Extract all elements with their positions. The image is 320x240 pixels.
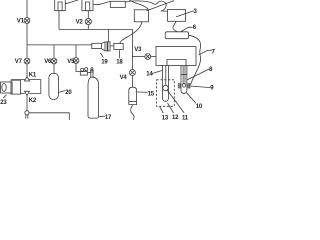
svg-text:7: 7 bbox=[212, 49, 216, 55]
svg-text:9: 9 bbox=[210, 86, 214, 92]
svg-text:3: 3 bbox=[194, 9, 198, 15]
svg-text:14: 14 bbox=[146, 72, 153, 78]
svg-text:V1: V1 bbox=[17, 19, 25, 25]
svg-text:V3: V3 bbox=[134, 47, 142, 53]
svg-text:K1: K1 bbox=[29, 72, 37, 78]
svg-text:18: 18 bbox=[116, 59, 123, 65]
svg-text:V6: V6 bbox=[44, 59, 52, 65]
svg-text:15: 15 bbox=[148, 92, 155, 98]
svg-text:17: 17 bbox=[105, 115, 112, 120]
svg-text:19: 19 bbox=[101, 59, 108, 65]
svg-text:11: 11 bbox=[182, 115, 189, 120]
svg-text:V4: V4 bbox=[120, 75, 128, 81]
svg-text:13: 13 bbox=[162, 115, 169, 120]
svg-text:23: 23 bbox=[0, 100, 7, 106]
svg-text:8: 8 bbox=[209, 67, 213, 73]
svg-text:12: 12 bbox=[172, 115, 179, 120]
svg-text:V5: V5 bbox=[67, 59, 75, 65]
svg-text:6: 6 bbox=[193, 25, 197, 31]
svg-text:10: 10 bbox=[196, 104, 203, 110]
svg-text:V2: V2 bbox=[76, 20, 84, 26]
svg-text:V7: V7 bbox=[15, 59, 23, 65]
svg-text:K2: K2 bbox=[29, 98, 37, 104]
svg-text:20: 20 bbox=[65, 90, 72, 96]
